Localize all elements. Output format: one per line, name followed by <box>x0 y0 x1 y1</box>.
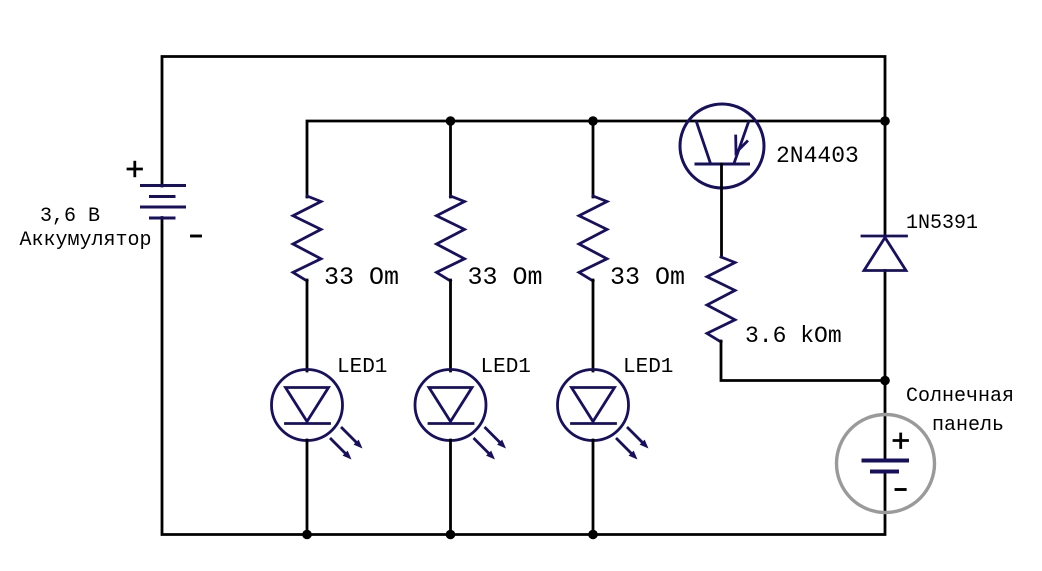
junction dot R4/right rail <box>880 376 890 386</box>
LED D3 cathode bar <box>572 422 616 425</box>
svg-text:33 Om: 33 Om <box>324 263 399 292</box>
diode D4 cathode bar <box>862 235 907 238</box>
diode D4 triangle <box>864 238 906 271</box>
wire: R1 to LED1a <box>306 280 309 371</box>
svg-text:3.6 kOm: 3.6 kOm <box>745 323 842 349</box>
wire: second horizontal rail (through transistor) with corner down to resistor R1 <box>307 121 885 197</box>
svg-text:3,6 В: 3,6 В <box>40 205 100 228</box>
junction dot rail2/R2 <box>446 116 456 126</box>
svg-text:Аккумулятор: Аккумулятор <box>20 229 152 252</box>
LED D1 light arrows <box>331 428 358 455</box>
wire: R3 to LED1c <box>592 280 595 371</box>
resistor R4 3.6 kOm zigzag <box>707 257 735 342</box>
junction dot rail2/right rail <box>880 116 890 126</box>
svg-text:LED1: LED1 <box>481 356 531 379</box>
transistor Q1 circle <box>680 104 764 188</box>
svg-text:33 Om: 33 Om <box>468 263 543 292</box>
wire: LED1a to bottom rail <box>306 440 309 535</box>
junction dot bottom/LED1c <box>588 530 598 540</box>
transistor Q1 right slant (emitter) <box>735 122 749 162</box>
svg-text:Солнечная: Солнечная <box>906 385 1014 408</box>
LED D3 circle <box>558 370 629 441</box>
LED D1 circle <box>272 370 343 441</box>
wire: base to resistor R4 <box>720 164 723 257</box>
LED D3 light arrows <box>617 428 644 455</box>
solar panel minus sign <box>896 488 905 491</box>
wire: R4 to junction at solar panel <box>721 341 885 381</box>
LED D2 cathode bar <box>429 422 473 425</box>
wire: battery top to top rail to right rail down to diode <box>162 57 885 237</box>
transistor Q1 emitter arrowhead <box>736 136 747 153</box>
wire: diode bottom to solar panel junction <box>884 271 887 462</box>
LED D1 triangle <box>286 388 329 422</box>
battery minus sign <box>192 235 201 238</box>
transistor Q1 base bar <box>696 163 749 166</box>
wire: LED1b to bottom rail <box>449 440 452 535</box>
junction dot rail2/R3 <box>588 116 598 126</box>
junction dot bottom/LED1b <box>446 530 456 540</box>
resistor R3 33 Om zigzag <box>579 196 607 281</box>
battery plus sign <box>128 162 142 176</box>
svg-text:LED1: LED1 <box>623 356 673 379</box>
LED D2 triangle <box>429 388 472 422</box>
LED D2 circle <box>415 370 486 441</box>
wire: rail to resistor R3 <box>592 121 595 197</box>
svg-text:33 Om: 33 Om <box>610 263 685 292</box>
solar panel long plate <box>864 459 908 463</box>
svg-text:панель: панель <box>932 414 1004 437</box>
solar panel plus sign <box>894 434 908 448</box>
solar panel short plate <box>872 470 897 474</box>
LED D3 triangle <box>572 388 615 422</box>
transistor Q1 left slant (collector) <box>697 122 711 162</box>
svg-text:1N5391: 1N5391 <box>906 212 978 235</box>
resistor R2 33 Om zigzag <box>437 196 465 281</box>
battery B1 3,6V plates <box>142 186 185 219</box>
wire: battery bottom, left rail, bottom rail, right rail up to solar panel <box>162 218 885 535</box>
svg-text:2N4403: 2N4403 <box>776 143 859 169</box>
LED D1 cathode bar <box>286 422 330 425</box>
solar panel circle <box>837 415 935 513</box>
LED D2 light arrows <box>475 428 502 455</box>
svg-text:LED1: LED1 <box>337 356 387 379</box>
wire: R2 to LED1b <box>449 280 452 371</box>
resistor R1 33 Om zigzag <box>293 196 321 281</box>
wire: rail to resistor R2 <box>449 121 452 197</box>
wire: LED1c to bottom rail <box>592 440 595 535</box>
junction dot bottom/LED1a <box>302 530 312 540</box>
